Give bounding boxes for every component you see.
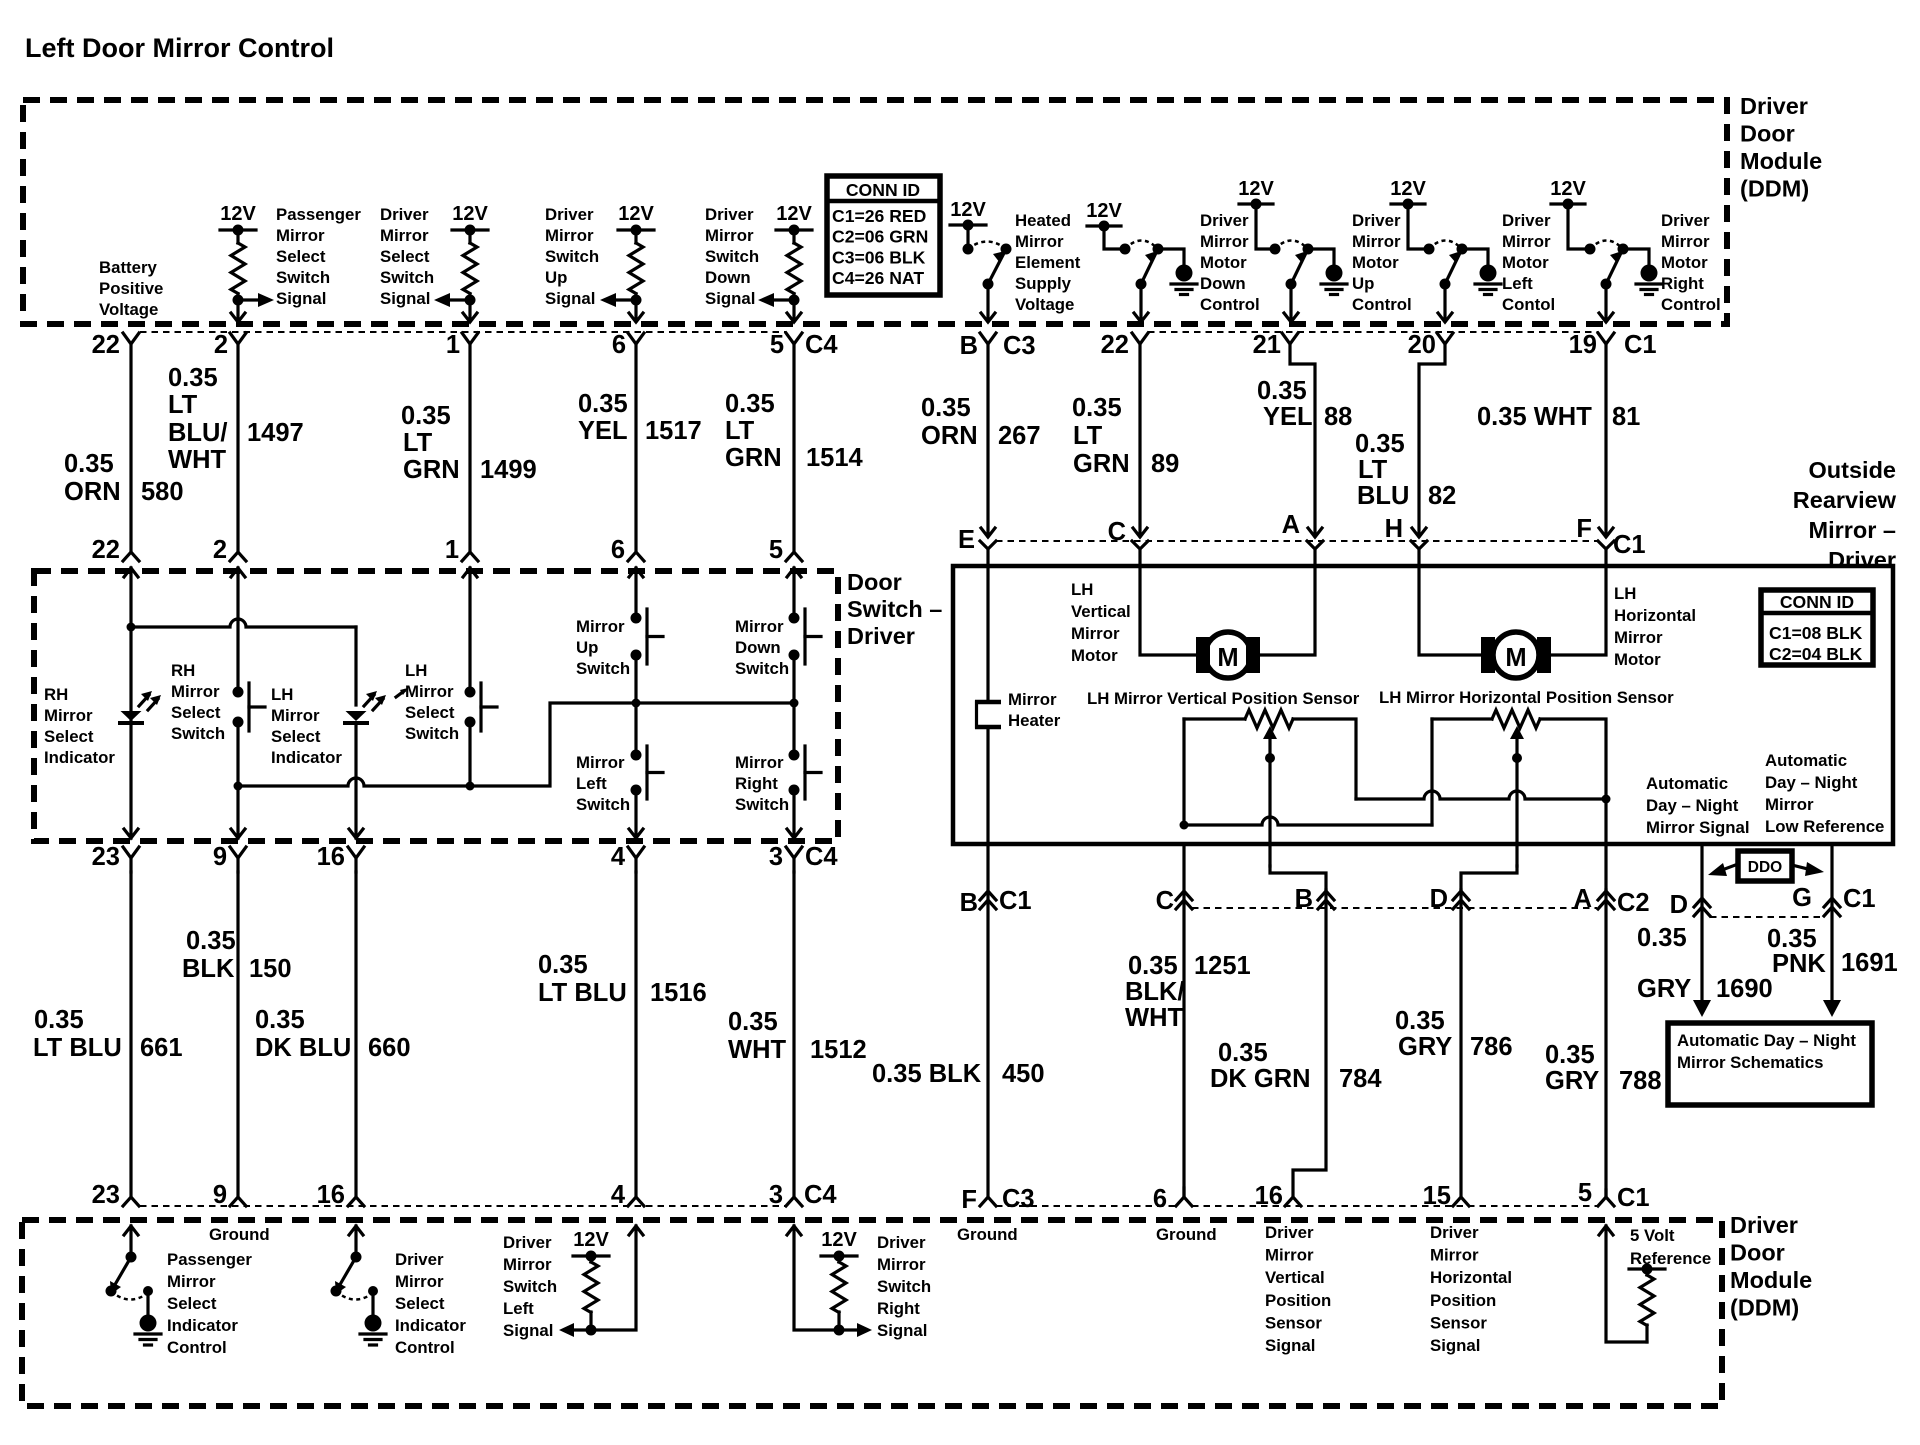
svg-text:C2=04 BLK: C2=04 BLK xyxy=(1769,644,1863,664)
svg-text:RH: RH xyxy=(44,685,68,704)
svg-text:LT: LT xyxy=(168,391,198,419)
svg-text:788: 788 xyxy=(1619,1067,1662,1095)
svg-text:Motor: Motor xyxy=(1614,650,1661,669)
svg-text:Mirror: Mirror xyxy=(1661,232,1710,251)
svg-text:LH Mirror Vertical Position Se: LH Mirror Vertical Position Sensor xyxy=(1087,689,1360,708)
svg-text:Switch: Switch xyxy=(576,659,630,678)
svg-text:BLU/: BLU/ xyxy=(168,419,228,447)
svg-text:Vertical: Vertical xyxy=(1071,602,1131,621)
svg-text:E: E xyxy=(958,526,975,554)
connector pin 6 of C4 (female fork) xyxy=(628,333,644,344)
svg-text:81: 81 xyxy=(1612,403,1640,431)
svg-text:660: 660 xyxy=(368,1034,411,1062)
wire pin F to horizontal motor xyxy=(1551,549,1606,655)
svg-text:12V: 12V xyxy=(1550,178,1586,200)
svg-text:A: A xyxy=(1282,511,1300,539)
svg-text:Mirror: Mirror xyxy=(380,226,429,245)
svg-text:150: 150 xyxy=(249,955,292,983)
svg-text:B: B xyxy=(960,889,978,917)
wire 660 DK BLU to DDM pin 16 xyxy=(354,872,357,1197)
svg-text:Mirror: Mirror xyxy=(705,226,754,245)
svg-text:12V: 12V xyxy=(573,1229,609,1251)
svg-text:5: 5 xyxy=(770,331,784,359)
Driver Door Module (DDM) box (top, dashed) xyxy=(23,100,1727,324)
svg-text:Motor: Motor xyxy=(1661,253,1708,272)
svg-text:Up: Up xyxy=(576,638,598,657)
svg-text:Battery: Battery xyxy=(99,258,157,277)
door switch exit arrow xyxy=(124,829,138,838)
svg-text:ORN: ORN xyxy=(921,422,978,450)
svg-text:Heater: Heater xyxy=(1008,711,1061,730)
wire 1516 LT BLU to DDM pin 4 xyxy=(634,872,637,1197)
door switch exit arrow xyxy=(787,829,801,838)
wire 580 ORN pin22 to door switch 22 xyxy=(129,344,132,552)
svg-text:1512: 1512 xyxy=(810,1036,867,1064)
svg-text:Heated: Heated xyxy=(1015,211,1071,230)
wire 661 LT BLU to DDM pin 23 xyxy=(129,872,132,1197)
small arrow at LH select switch xyxy=(396,691,404,697)
svg-text:Switch: Switch xyxy=(171,724,225,743)
svg-text:Switch: Switch xyxy=(576,795,630,814)
svg-text:Control: Control xyxy=(167,1338,227,1357)
svg-text:Outside: Outside xyxy=(1809,457,1896,483)
svg-text:Mirror Signal: Mirror Signal xyxy=(1646,818,1750,837)
svg-text:Day – Night: Day – Night xyxy=(1765,773,1858,792)
svg-text:Mirror: Mirror xyxy=(276,226,325,245)
svg-text:BLK: BLK xyxy=(182,955,235,983)
bus riser wire to up/down switch common xyxy=(470,703,794,786)
svg-text:0.35: 0.35 xyxy=(1072,394,1122,422)
svg-text:LH: LH xyxy=(405,661,427,680)
svg-text:Mirror: Mirror xyxy=(1265,1246,1314,1265)
svg-text:C2=06 GRN: C2=06 GRN xyxy=(832,227,928,247)
mirror connector pin F (V fork) xyxy=(1598,541,1614,549)
svg-text:Contol: Contol xyxy=(1502,295,1555,314)
svg-text:16: 16 xyxy=(317,843,345,871)
potentiometer LH Mirror Vertical Position Sensor xyxy=(1184,717,1245,720)
svg-text:G: G xyxy=(1792,884,1812,912)
svg-text:Motor: Motor xyxy=(1071,646,1118,665)
svg-text:Vertical: Vertical xyxy=(1265,1268,1325,1287)
LED LH Mirror Select Indicator xyxy=(346,711,367,721)
svg-text:C1: C1 xyxy=(1617,1184,1650,1212)
svg-text:D: D xyxy=(1670,891,1688,919)
svg-text:B: B xyxy=(960,332,978,360)
svg-text:Right: Right xyxy=(877,1299,920,1318)
svg-text:Control: Control xyxy=(395,1338,455,1357)
svg-text:Motor: Motor xyxy=(1502,253,1549,272)
svg-text:C3=06 BLK: C3=06 BLK xyxy=(832,247,926,267)
svg-text:Right: Right xyxy=(735,774,778,793)
svg-text:Sensor: Sensor xyxy=(1265,1313,1322,1332)
svg-text:LH: LH xyxy=(271,685,293,704)
svg-text:C: C xyxy=(1108,518,1126,546)
svg-text:21: 21 xyxy=(1253,331,1281,359)
connector pin 21 of C1 (female fork) xyxy=(1282,333,1298,344)
connector pin 5 of C4 (female fork) xyxy=(786,333,802,344)
svg-text:Ground: Ground xyxy=(957,1225,1018,1244)
svg-text:Indicator: Indicator xyxy=(44,748,115,767)
wire mirror pin B to DDM F ground xyxy=(986,844,989,1197)
svg-text:Indicator: Indicator xyxy=(271,748,342,767)
wire heater to box bottom edge xyxy=(986,727,989,844)
DDO right arrow to pin G xyxy=(1792,865,1808,869)
svg-text:Mirror: Mirror xyxy=(171,682,220,701)
svg-text:Driver: Driver xyxy=(705,205,754,224)
svg-text:0.35: 0.35 xyxy=(728,1008,778,1036)
svg-text:M: M xyxy=(1217,644,1238,672)
wire pin E into mirror heater xyxy=(986,549,989,699)
svg-text:Automatic: Automatic xyxy=(1646,774,1728,793)
wire vertical sensor signal to pin B of C2 with jog xyxy=(1270,866,1326,890)
svg-text:1517: 1517 xyxy=(645,417,702,445)
svg-text:1497: 1497 xyxy=(247,419,304,447)
svg-text:786: 786 xyxy=(1470,1033,1513,1061)
connector pin 23 of C4 lower (female fork) xyxy=(123,847,139,858)
svg-text:Switch: Switch xyxy=(503,1277,557,1296)
svg-text:Control: Control xyxy=(1200,295,1260,314)
svg-text:Mirror: Mirror xyxy=(1502,232,1551,251)
svg-text:Driver: Driver xyxy=(1430,1223,1479,1242)
svg-text:CONN ID: CONN ID xyxy=(1780,592,1854,612)
svg-text:LT BLU: LT BLU xyxy=(33,1034,122,1062)
svg-text:Up: Up xyxy=(1352,274,1374,293)
svg-text:0.35: 0.35 xyxy=(1355,430,1405,458)
door switch exit arrow xyxy=(629,829,643,838)
svg-text:Driver: Driver xyxy=(380,205,429,224)
svg-text:Mirror: Mirror xyxy=(167,1272,216,1291)
svg-text:Driver: Driver xyxy=(1661,211,1710,230)
svg-text:D: D xyxy=(1430,885,1448,913)
svg-text:(DDM): (DDM) xyxy=(1730,1295,1799,1321)
svg-text:Select: Select xyxy=(271,727,321,746)
svg-text:C1: C1 xyxy=(999,887,1032,915)
svg-text:Down: Down xyxy=(735,638,781,657)
svg-text:Voltage: Voltage xyxy=(1015,295,1074,314)
wire pin 4 to left signal resistor with left arrow xyxy=(591,1226,636,1330)
svg-text:Driver: Driver xyxy=(1502,211,1551,230)
svg-text:F: F xyxy=(961,1186,977,1214)
mirror connector pin A (V fork) xyxy=(1307,541,1323,549)
svg-text:A: A xyxy=(1574,885,1592,913)
svg-text:RH: RH xyxy=(171,661,195,680)
junction node at LH switch bottom xyxy=(466,782,475,791)
svg-text:C4=26 NAT: C4=26 NAT xyxy=(832,268,924,288)
connector pin 9 of C4 lower (female fork) xyxy=(230,847,246,858)
svg-text:Select: Select xyxy=(171,703,221,722)
svg-text:9: 9 xyxy=(213,843,227,871)
svg-text:Low Reference: Low Reference xyxy=(1765,817,1884,836)
svg-text:Sensor: Sensor xyxy=(1430,1313,1487,1332)
wire pin A rail down through box edge xyxy=(1604,799,1607,890)
wire pin H to horizontal motor xyxy=(1419,549,1481,655)
svg-text:Driver: Driver xyxy=(1265,1223,1314,1242)
wire 82 LT BLU pin20 to mirror pin H with jog xyxy=(1419,344,1445,536)
svg-text:89: 89 xyxy=(1151,450,1179,478)
wire 5V reference pin A of C2 to DDM pin 5 xyxy=(1604,890,1607,1197)
svg-text:661: 661 xyxy=(140,1034,183,1062)
svg-text:1: 1 xyxy=(446,331,460,359)
connector pin 1 of C4 (female fork) xyxy=(462,333,478,344)
svg-text:Select: Select xyxy=(380,247,430,266)
svg-text:1690: 1690 xyxy=(1716,975,1773,1003)
wire 150 BLK to DDM pin 9 Ground xyxy=(236,872,239,1197)
wiper arrow vertical position sensor xyxy=(1268,733,1271,866)
wire horizontal sensor signal to pin D of C2 with jog xyxy=(1461,866,1517,890)
connector fork 16 bottom xyxy=(1285,1197,1301,1206)
svg-text:0.35: 0.35 xyxy=(168,364,218,392)
connector fork F bottom xyxy=(980,1197,996,1206)
svg-text:Horizontal: Horizontal xyxy=(1430,1268,1512,1287)
potentiometer LH Mirror Horizontal Position Sensor xyxy=(1432,717,1492,720)
Outside Rearview Mirror - Driver box (solid) xyxy=(953,566,1893,844)
svg-text:Switch –: Switch – xyxy=(847,596,942,622)
svg-text:LT BLU: LT BLU xyxy=(538,979,627,1007)
switch Mirror Right Switch xyxy=(792,703,795,755)
wire pin 3 to right signal resistor with right arrow xyxy=(794,1226,839,1330)
svg-text:2: 2 xyxy=(213,536,227,564)
svg-text:1: 1 xyxy=(445,536,459,564)
svg-text:1514: 1514 xyxy=(806,444,864,472)
svg-text:Switch: Switch xyxy=(276,268,330,287)
svg-text:B: B xyxy=(1295,885,1313,913)
emission arrows RH indicator xyxy=(139,695,149,706)
svg-text:0.35: 0.35 xyxy=(1767,925,1817,953)
lower bus wire from RH switch to LH switch with bump over wire 16 xyxy=(238,778,470,786)
svg-text:Automatic Day – Night: Automatic Day – Night xyxy=(1677,1031,1856,1050)
wire pin C ground to DDM pin 6 xyxy=(1182,844,1185,1197)
switch RH Mirror Select Switch xyxy=(236,568,239,692)
emission arrows LH indicator xyxy=(364,695,374,706)
svg-text:C: C xyxy=(1156,887,1174,915)
svg-text:WHT: WHT xyxy=(728,1036,786,1064)
svg-text:Signal: Signal xyxy=(380,289,430,308)
svg-text:0.35: 0.35 xyxy=(725,390,775,418)
svg-text:16: 16 xyxy=(317,1181,345,1209)
svg-text:YEL: YEL xyxy=(1263,403,1313,431)
svg-text:Driver: Driver xyxy=(1730,1212,1798,1238)
connector fork 6 bottom xyxy=(1182,1188,1185,1197)
svg-text:Switch: Switch xyxy=(735,659,789,678)
svg-text:CONN ID: CONN ID xyxy=(846,180,920,200)
svg-text:C1: C1 xyxy=(1613,531,1646,559)
connector row C4/C3/C1 thin dashed line left xyxy=(140,331,786,333)
connector pin 3 of C4 lower (female fork) xyxy=(786,847,802,858)
svg-text:82: 82 xyxy=(1428,482,1456,510)
svg-text:Mirror: Mirror xyxy=(735,753,784,772)
svg-text:20: 20 xyxy=(1408,331,1436,359)
svg-text:12V: 12V xyxy=(821,1229,857,1251)
wire 1497 LT BLU/WHT pin2 to door switch 2 xyxy=(236,344,239,552)
svg-text:0.35: 0.35 xyxy=(64,450,114,478)
svg-text:ORN: ORN xyxy=(64,478,121,506)
svg-text:Rearview: Rearview xyxy=(1793,487,1897,513)
switch Mirror Down Switch xyxy=(792,568,795,618)
svg-text:C2: C2 xyxy=(1617,889,1650,917)
svg-text:GRN: GRN xyxy=(725,444,782,472)
svg-text:0.35: 0.35 xyxy=(1637,924,1687,952)
svg-text:88: 88 xyxy=(1324,403,1352,431)
connector pin 2 of C4 (female fork) xyxy=(230,333,246,344)
mirror connector pin C (V fork) xyxy=(1132,541,1148,549)
DDO box xyxy=(1738,851,1792,881)
svg-text:C4: C4 xyxy=(804,1181,837,1209)
svg-text:GRN: GRN xyxy=(1073,450,1130,478)
door switch exit arrow xyxy=(231,829,245,838)
svg-text:C1=08 BLK: C1=08 BLK xyxy=(1769,623,1863,643)
svg-text:LH: LH xyxy=(1614,584,1636,603)
svg-text:Switch: Switch xyxy=(735,795,789,814)
LED RH Mirror Select Indicator xyxy=(121,711,142,721)
svg-text:Mirror: Mirror xyxy=(1765,795,1814,814)
wire 267 ORN pin B to mirror pin E xyxy=(986,344,989,536)
svg-text:Mirror: Mirror xyxy=(576,617,625,636)
svg-text:Left: Left xyxy=(1502,274,1533,293)
junction node 5V rail at pin A wire xyxy=(1602,795,1611,804)
svg-text:Driver: Driver xyxy=(877,1233,926,1252)
svg-text:Switch: Switch xyxy=(705,247,759,266)
connector row thin dashed line right xyxy=(1148,331,1598,333)
svg-text:Indicator: Indicator xyxy=(167,1316,238,1335)
svg-text:Control: Control xyxy=(1661,295,1721,314)
wire automatic day-night mirror signal pin D xyxy=(1700,844,1703,1000)
svg-text:1499: 1499 xyxy=(480,456,537,484)
svg-text:Motor: Motor xyxy=(1200,253,1247,272)
svg-text:0.35 BLK: 0.35 BLK xyxy=(872,1060,982,1088)
svg-text:Signal: Signal xyxy=(1265,1336,1315,1355)
connector pin 4 of C4 lower (female fork) xyxy=(628,847,644,858)
Automatic Day - Night Mirror Schematics box xyxy=(1668,1023,1872,1105)
svg-text:Signal: Signal xyxy=(1430,1336,1480,1355)
switch Driver Mirror Select Indicator Control xyxy=(354,1226,357,1257)
Driver Door Module (DDM) box (bottom, dashed) xyxy=(22,1220,1722,1406)
svg-text:Supply: Supply xyxy=(1015,274,1072,293)
svg-text:Mirror: Mirror xyxy=(1614,628,1663,647)
switch Mirror Left Switch xyxy=(634,703,637,755)
svg-text:Mirror: Mirror xyxy=(1430,1246,1479,1265)
wiper arrow horizontal position sensor xyxy=(1515,733,1518,866)
svg-text:12V: 12V xyxy=(452,203,488,225)
bottom connector thin dashed line left xyxy=(140,1205,786,1207)
svg-text:Mirror: Mirror xyxy=(1015,232,1064,251)
svg-text:Driver: Driver xyxy=(1740,93,1808,119)
junction node wire 5 common xyxy=(790,699,799,708)
svg-text:GRY: GRY xyxy=(1398,1033,1452,1061)
svg-text:0.35: 0.35 xyxy=(538,951,588,979)
svg-text:Mirror: Mirror xyxy=(735,617,784,636)
svg-text:Door: Door xyxy=(1740,121,1795,147)
svg-text:C1: C1 xyxy=(1843,885,1876,913)
svg-text:F: F xyxy=(1576,515,1592,543)
svg-text:DK BLU: DK BLU xyxy=(255,1034,351,1062)
svg-text:Mirror: Mirror xyxy=(545,226,594,245)
DDM entry arrow xyxy=(1599,1226,1613,1235)
mirror bottom connector C2 thin dashed line xyxy=(1192,907,1597,909)
svg-text:Driver: Driver xyxy=(503,1233,552,1252)
svg-text:Mirror: Mirror xyxy=(1200,232,1249,251)
svg-text:C3: C3 xyxy=(1003,332,1036,360)
wire 22 inside door box to RH indicator LED xyxy=(129,568,132,838)
connector fork 5 bottom xyxy=(1604,1190,1607,1197)
svg-text:Mirror: Mirror xyxy=(877,1255,926,1274)
wire 89 LT GRN pin22 to mirror pin C xyxy=(1138,344,1141,536)
DDM entry arrow xyxy=(787,1226,801,1235)
svg-text:0.35: 0.35 xyxy=(1218,1039,1268,1067)
wire pin A to vertical motor xyxy=(1260,549,1315,655)
svg-text:0.35: 0.35 xyxy=(255,1006,305,1034)
svg-text:Mirror: Mirror xyxy=(1008,690,1057,709)
svg-text:12V: 12V xyxy=(1390,178,1426,200)
svg-text:12V: 12V xyxy=(1086,200,1122,222)
junction node wire 9 lower bus xyxy=(234,782,243,791)
connector pin 20 of C1 (female fork) xyxy=(1437,333,1453,344)
svg-text:Driver: Driver xyxy=(1828,547,1896,573)
svg-text:Motor: Motor xyxy=(1352,253,1399,272)
wire 1512 WHT to DDM pin 3 xyxy=(792,872,795,1197)
svg-text:1691: 1691 xyxy=(1841,949,1898,977)
svg-text:12V: 12V xyxy=(1238,178,1274,200)
svg-text:Mirror: Mirror xyxy=(503,1255,552,1274)
svg-text:22: 22 xyxy=(92,536,120,564)
svg-text:Switch: Switch xyxy=(380,268,434,287)
switch Mirror Up Switch xyxy=(634,568,637,618)
wire 1514 LT GRN pin5 to door switch 5 xyxy=(792,344,795,552)
svg-text:12V: 12V xyxy=(776,203,812,225)
svg-text:Down: Down xyxy=(705,268,751,287)
junction node wire 6 common xyxy=(632,699,641,708)
svg-text:YEL: YEL xyxy=(578,417,628,445)
svg-text:M: M xyxy=(1505,644,1526,672)
svg-text:Signal: Signal xyxy=(545,289,595,308)
svg-text:0.35: 0.35 xyxy=(578,390,628,418)
svg-text:C4: C4 xyxy=(805,843,838,871)
connector pin 22 of C4 (female fork) xyxy=(123,333,139,344)
DDM entry arrow xyxy=(349,1226,363,1235)
svg-text:Driver: Driver xyxy=(1352,211,1401,230)
svg-text:LT: LT xyxy=(1073,422,1103,450)
connector pin 16 of C4 lower (female fork) xyxy=(348,847,364,858)
svg-text:0.35: 0.35 xyxy=(921,394,971,422)
svg-text:Select: Select xyxy=(276,247,326,266)
svg-text:6: 6 xyxy=(1153,1185,1167,1213)
svg-text:WHT: WHT xyxy=(1125,1004,1183,1032)
svg-text:Ground: Ground xyxy=(1156,1225,1217,1244)
mirror connector pin E (V fork) xyxy=(980,541,996,549)
svg-text:Ground: Ground xyxy=(209,1225,270,1244)
CONN ID table (C1=26 RED C2=06 GRN C3=06 BLK C4=26 NAT) xyxy=(827,176,940,295)
svg-text:Positive: Positive xyxy=(99,279,163,298)
svg-text:0.35: 0.35 xyxy=(1395,1007,1445,1035)
svg-text:Driver: Driver xyxy=(1200,211,1249,230)
svg-text:Signal: Signal xyxy=(503,1321,553,1340)
svg-text:(DDM): (DDM) xyxy=(1740,176,1809,202)
wire pin 5 to 5 volt reference resistor xyxy=(1606,1226,1647,1342)
svg-text:H: H xyxy=(1385,515,1403,543)
svg-text:Mirror: Mirror xyxy=(44,706,93,725)
svg-text:Module: Module xyxy=(1730,1267,1812,1293)
svg-text:Day – Night: Day – Night xyxy=(1646,796,1739,815)
door switch entry arrow pin 6 xyxy=(629,568,643,577)
wire 1499 LT GRN pin1 to door switch 1 xyxy=(468,344,471,552)
wire 1517 YEL pin6 to door switch 6 xyxy=(634,344,637,552)
svg-text:Up: Up xyxy=(545,268,567,287)
wire 81 WHT pin19 to mirror pin F xyxy=(1604,344,1607,536)
door switch entry arrow pin 2 xyxy=(231,568,245,577)
Door Switch - Driver box (dashed) xyxy=(34,571,838,841)
svg-text:Switch: Switch xyxy=(877,1277,931,1296)
svg-text:Signal: Signal xyxy=(276,289,326,308)
DDO connector thin dashed line D to G xyxy=(1710,916,1824,918)
